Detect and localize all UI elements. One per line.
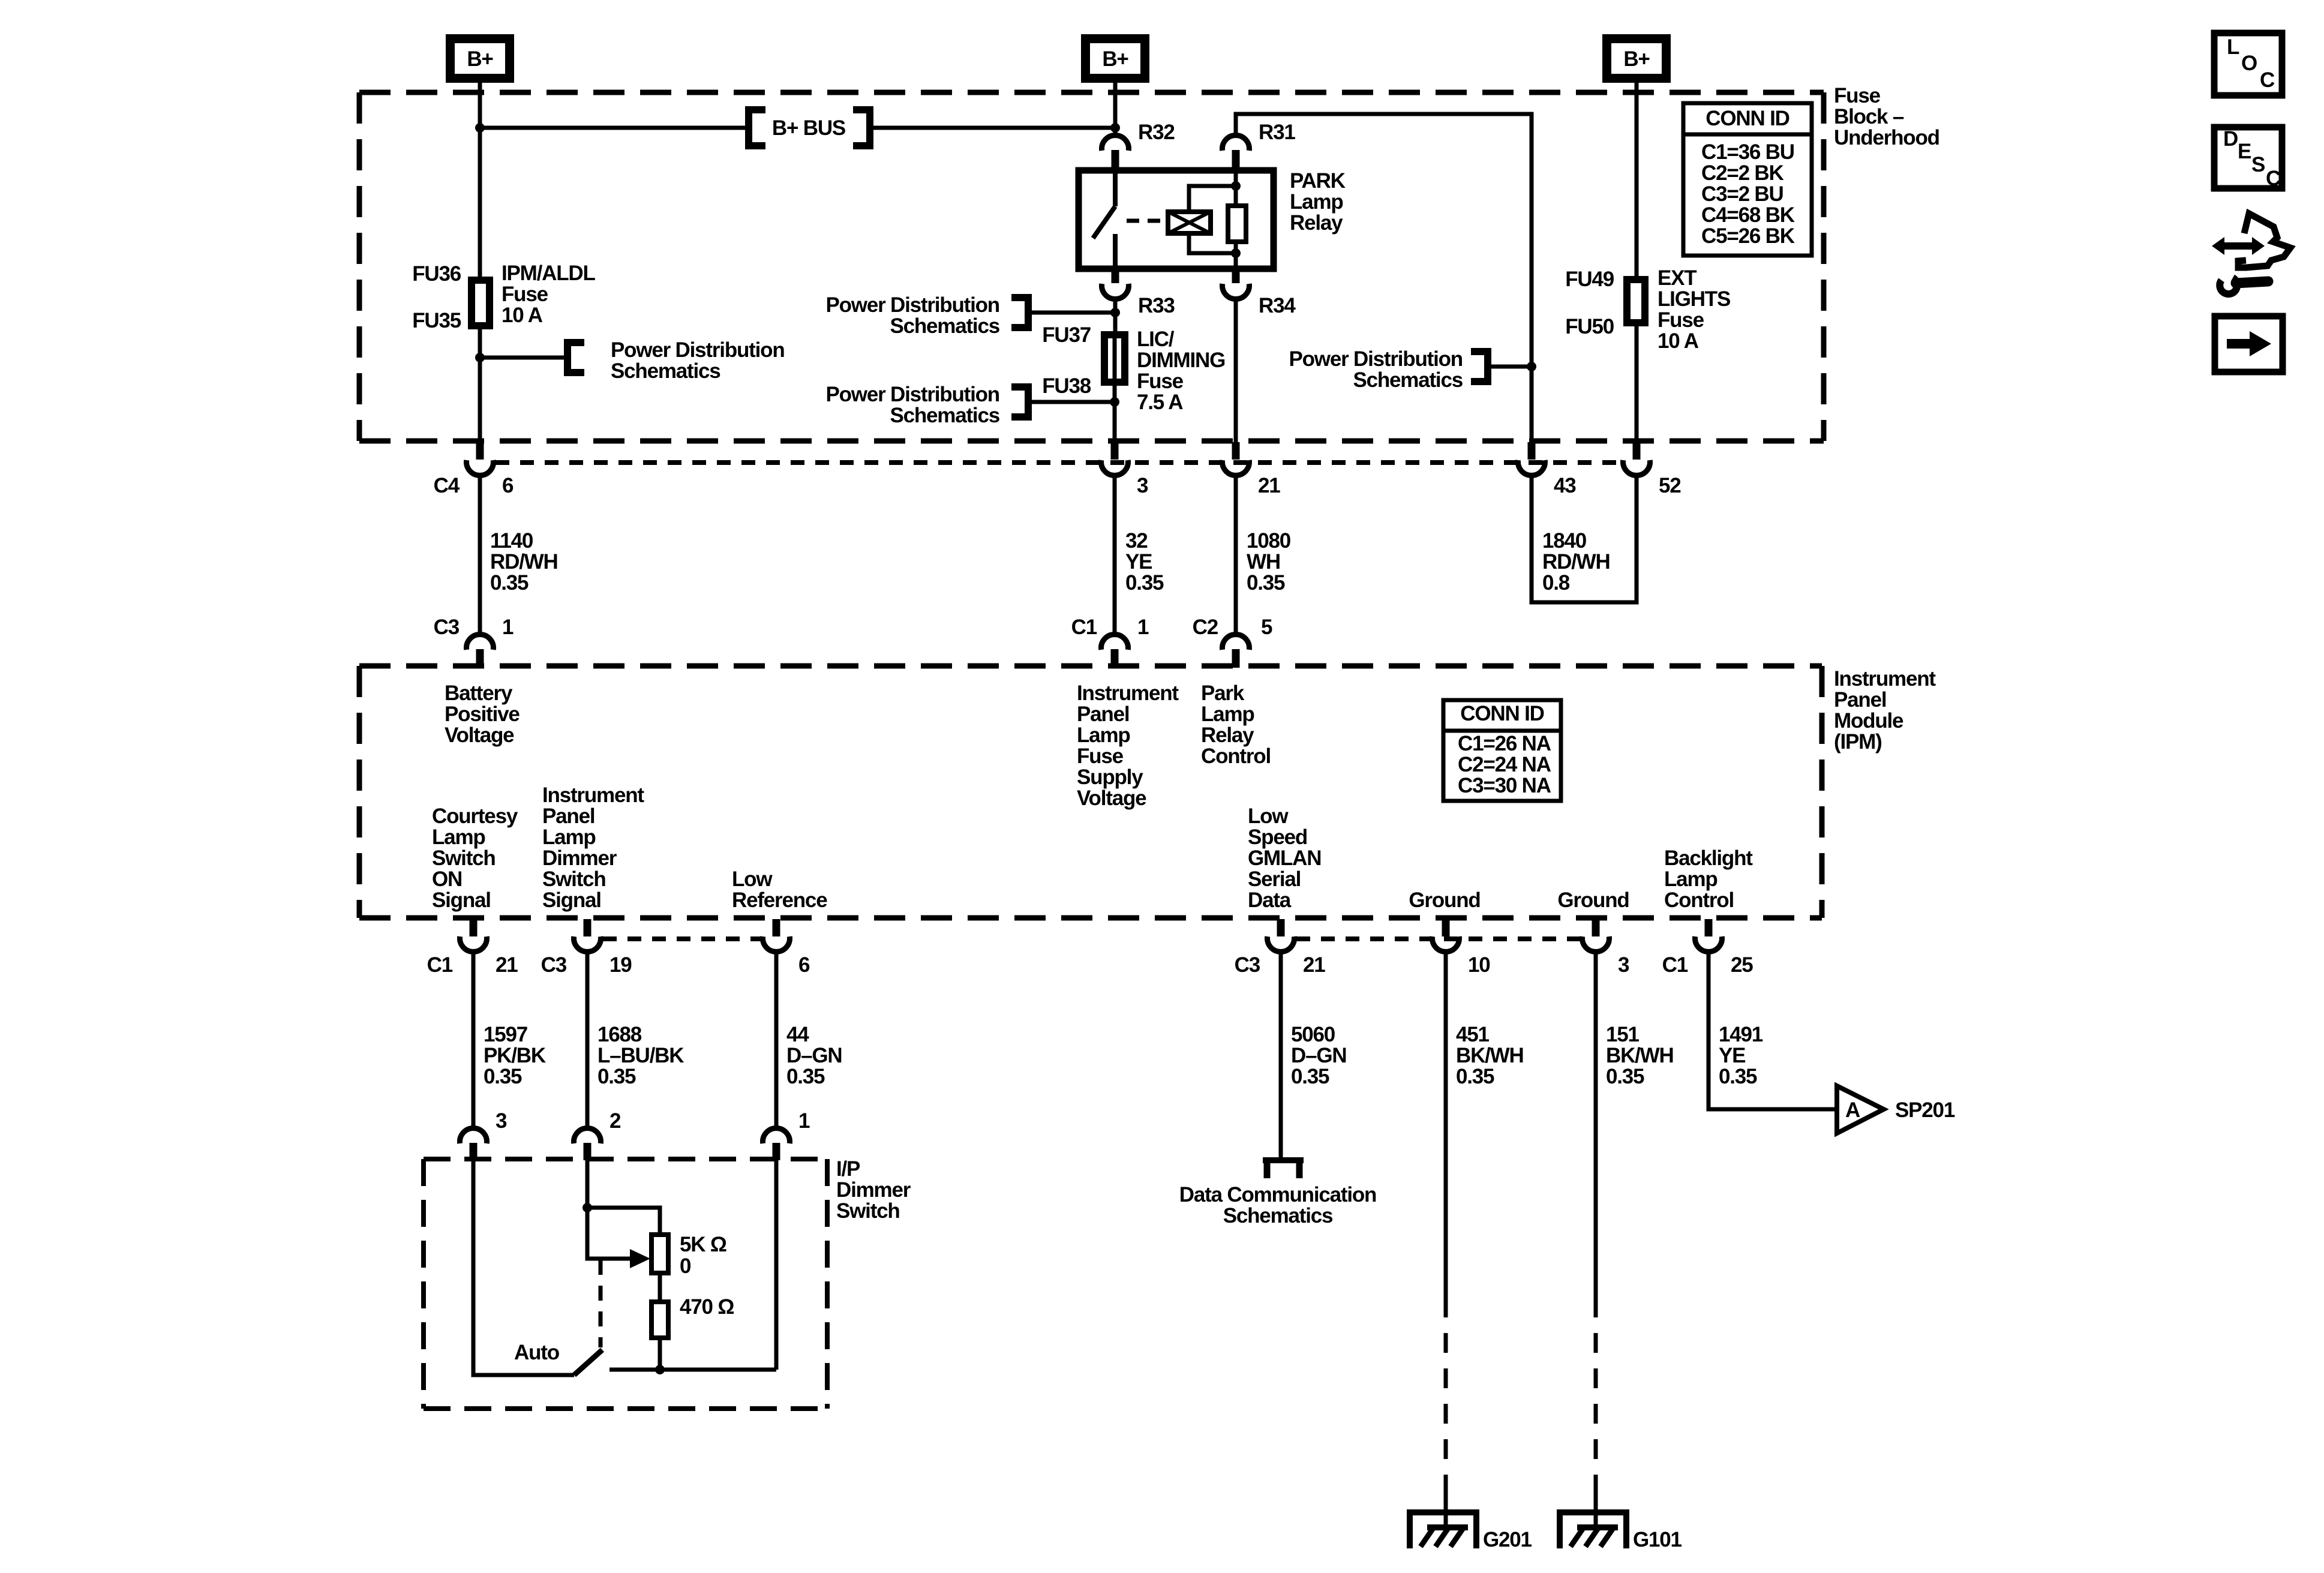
svg-text:LIGHTS: LIGHTS (1658, 287, 1730, 311)
junction resistor bottom (655, 1365, 665, 1374)
wire R34 to connector 21 (1234, 300, 1238, 444)
svg-text:R31: R31 (1259, 121, 1295, 144)
svg-text:SP201: SP201 (1895, 1098, 1955, 1122)
svg-text:Dimmer: Dimmer (836, 1178, 911, 1202)
IPM label (1834, 667, 1936, 754)
svg-text:FU37: FU37 (1042, 323, 1091, 347)
svg-text:EXT: EXT (1658, 266, 1697, 290)
svg-text:E: E (2238, 140, 2251, 163)
B+ battery feed symbol 1 (446, 34, 514, 83)
svg-text:WH: WH (1247, 550, 1280, 574)
svg-text:C2=24 NA: C2=24 NA (1458, 753, 1551, 776)
svg-text:L: L (2227, 35, 2239, 59)
svg-text:A: A (1845, 1098, 1860, 1122)
svg-text:C1: C1 (1071, 616, 1097, 639)
wire 1597 PK/BK (472, 953, 476, 1128)
svg-text:10 A: 10 A (502, 304, 543, 327)
wire label 1491 YE 0.35 (1719, 1023, 1763, 1088)
svg-text:3: 3 (496, 1109, 507, 1133)
relay switch fixed contact lower (1113, 234, 1118, 269)
svg-text:C1=26 NA: C1=26 NA (1458, 732, 1551, 755)
svg-text:O: O (2241, 52, 2257, 75)
fuse FU49/FU50 EXT LIGHTS (1627, 280, 1645, 323)
connector C2 pin 5 IPM (1222, 635, 1249, 668)
svg-text:FU50: FU50 (1565, 315, 1614, 338)
svg-text:Instrument: Instrument (1077, 682, 1179, 705)
svg-text:Signal: Signal (542, 888, 601, 912)
relay actuator dashed linkage (1127, 219, 1166, 223)
wire wiper arm (587, 1208, 632, 1259)
off-page label power distribution schematics 2 (825, 293, 999, 338)
svg-text:B+ BUS: B+ BUS (772, 116, 845, 140)
connector fuse block bottom x=2728 pin 52 (1623, 442, 1650, 475)
connector fuse block bottom x=2060 pin 21 (1222, 442, 1249, 475)
wire label 44 D–GN 0.35 (786, 1023, 842, 1088)
power distribution schematics bracket 4 (1471, 348, 1488, 385)
svg-text:FU36: FU36 (412, 262, 461, 286)
svg-text:L–BU/BK: L–BU/BK (597, 1044, 684, 1067)
svg-text:Panel: Panel (1834, 688, 1886, 712)
svg-text:Lamp: Lamp (432, 825, 485, 849)
svg-text:C3: C3 (1235, 953, 1260, 977)
wire FU50 to connector 52 (1635, 326, 1639, 444)
svg-text:R34: R34 (1259, 294, 1296, 317)
svg-text:(IPM): (IPM) (1834, 730, 1882, 754)
svg-text:B+: B+ (467, 47, 493, 71)
relay switch fixed contact upper (1113, 170, 1118, 206)
svg-text:Reference: Reference (732, 888, 827, 912)
svg-text:YE: YE (1719, 1044, 1745, 1067)
svg-text:PK/BK: PK/BK (484, 1044, 546, 1067)
svg-text:10 A: 10 A (1658, 329, 1699, 353)
connector dimmer switch pin 1 (763, 1128, 790, 1160)
wire 32 YE (1113, 476, 1117, 634)
svg-text:C3: C3 (434, 616, 460, 639)
svg-text:RD/WH: RD/WH (1542, 550, 1610, 574)
svg-text:Switch: Switch (432, 846, 496, 870)
svg-text:C: C (2260, 68, 2275, 92)
svg-text:FU35: FU35 (412, 309, 461, 332)
fuse FU37/FU38 LIC/DIMMING (1104, 335, 1125, 382)
off-page label data communication schematics (1179, 1183, 1376, 1227)
svg-text:C1: C1 (427, 953, 453, 977)
svg-text:0.35: 0.35 (1125, 571, 1164, 595)
svg-text:0.8: 0.8 (1542, 571, 1570, 595)
switch blade auto (574, 1350, 602, 1375)
wire label 151 BK/WH 0.35 (1606, 1023, 1674, 1088)
wire B+2 vertical feed to R32 (1113, 83, 1118, 136)
wire resistor to bottom node (658, 1338, 662, 1370)
svg-text:Control: Control (1664, 888, 1734, 912)
wire relay coil bottom to R31 line (1189, 233, 1236, 253)
connector row dotted line IPM bottom right group (1296, 936, 1580, 941)
svg-text:C3=30 NA: C3=30 NA (1458, 774, 1551, 797)
svg-text:44: 44 (786, 1023, 809, 1046)
IPM output label instrument panel lamp dimmer switch signal (542, 784, 644, 912)
svg-text:Power Distribution: Power Distribution (825, 383, 999, 406)
svg-text:Schematics: Schematics (1353, 368, 1463, 392)
svg-text:Underhood: Underhood (1834, 126, 1939, 149)
svg-text:Schematics: Schematics (1223, 1204, 1333, 1227)
svg-text:Power Distribution: Power Distribution (825, 293, 999, 317)
svg-text:Schematics: Schematics (611, 359, 720, 383)
svg-text:Fuse: Fuse (1834, 84, 1881, 107)
svg-text:Speed: Speed (1248, 825, 1307, 849)
connector IPM bottom x=979 pin 19 (574, 919, 601, 951)
svg-text:C1: C1 (1662, 953, 1688, 977)
svg-text:Lamp: Lamp (1077, 724, 1130, 747)
svg-text:Instrument: Instrument (1834, 667, 1936, 691)
wire relay coil top to R31 line (1189, 186, 1236, 212)
junction coil bottom (1231, 248, 1241, 258)
wire label 1688 L–BU/BK 0.35 (597, 1023, 684, 1088)
svg-text:CONN ID: CONN ID (1706, 107, 1789, 130)
svg-text:0.35: 0.35 (597, 1065, 636, 1088)
wire tap to power distribution bracket 3 (1028, 400, 1115, 404)
svg-text:Courtesy: Courtesy (432, 804, 518, 828)
svg-text:Backlight: Backlight (1664, 846, 1753, 870)
B+ BUS left bracket (749, 106, 765, 149)
svg-text:C4=68 BK: C4=68 BK (1701, 203, 1795, 227)
wire potentiometer to resistor 470 (658, 1273, 662, 1302)
wire label 5060 D-GN 0.35 (1291, 1023, 1346, 1088)
svg-text:0.35: 0.35 (1719, 1065, 1757, 1088)
svg-text:C3: C3 (541, 953, 567, 977)
svg-text:Park: Park (1201, 682, 1245, 705)
svg-text:BK/WH: BK/WH (1606, 1044, 1674, 1067)
relay switch blade (1093, 206, 1115, 238)
wire 1491 YE to splice SP201 (1709, 953, 1834, 1109)
wire label 32 YE 0.35 (1125, 529, 1164, 595)
svg-text:B+: B+ (1623, 47, 1650, 71)
wire label 1840 RD/WH 0.8 (1542, 529, 1610, 595)
svg-text:21: 21 (1258, 474, 1280, 497)
wire FU35 to connector C4 (478, 329, 482, 444)
wire label 1597 PK/BK 0.35 (484, 1023, 546, 1088)
svg-text:Module: Module (1834, 709, 1903, 733)
svg-text:1: 1 (502, 616, 514, 639)
svg-text:1: 1 (798, 1109, 810, 1133)
fuse FU36/FU35 IPM/ALDL (472, 280, 490, 326)
svg-text:C2: C2 (1193, 616, 1218, 639)
svg-text:C4: C4 (434, 474, 460, 497)
wire label 1080 WH 0.35 (1247, 529, 1291, 595)
svg-text:Auto: Auto (514, 1341, 560, 1364)
potentiometer 5K (651, 1235, 668, 1273)
svg-text:Battery: Battery (445, 682, 513, 705)
power distribution schematics bracket 2 (1011, 294, 1028, 331)
connector IPM bottom x=2410 pin 10 (1433, 919, 1460, 951)
wire junction to potentiometer top (587, 1208, 660, 1235)
wire tap to power distribution bracket 4 (1491, 365, 1532, 369)
svg-text:Schematics: Schematics (890, 314, 999, 338)
connector C1 pin 1 IPM (1101, 635, 1128, 668)
wire 1840 RD/WH loop 43 to 52 (1532, 476, 1637, 602)
power distribution schematics bracket 3 (1011, 383, 1028, 421)
junction B+ bus tap (475, 123, 485, 133)
icon LOC box (2214, 33, 2282, 95)
svg-text:0.35: 0.35 (490, 571, 529, 595)
svg-text:32: 32 (1125, 529, 1148, 553)
connector row dotted line fuse block (496, 460, 1621, 465)
B+ battery feed symbol 3 (1602, 34, 1671, 83)
svg-text:0.35: 0.35 (484, 1065, 522, 1088)
svg-text:YE: YE (1125, 550, 1152, 574)
connector C3 pin 1 IPM (467, 635, 494, 668)
svg-text:C3=2 BU: C3=2 BU (1701, 182, 1783, 206)
svg-text:3: 3 (1137, 474, 1148, 497)
svg-text:D: D (2223, 127, 2238, 151)
relay coil box with X (1168, 212, 1211, 233)
svg-text:Power Distribution: Power Distribution (1289, 347, 1463, 371)
svg-text:ON: ON (432, 867, 462, 891)
wire into ground G101 (1594, 1494, 1598, 1527)
svg-text:21: 21 (496, 953, 518, 977)
connector IPM bottom x=789 pin 21 (460, 919, 487, 951)
junction power distribution tap 2 (1110, 308, 1120, 317)
off-page terminal data communication (1263, 1160, 1304, 1178)
CONN ID table IPM (1443, 700, 1561, 801)
junction power distribution tap 3 (1110, 397, 1119, 407)
svg-text:G101: G101 (1633, 1528, 1682, 1551)
svg-text:S: S (2251, 153, 2265, 176)
svg-text:1688: 1688 (597, 1023, 642, 1046)
svg-text:Supply: Supply (1077, 766, 1143, 789)
svg-text:6: 6 (502, 474, 514, 497)
wire 1688 L–BU/BK (585, 953, 590, 1128)
svg-text:6: 6 (798, 953, 810, 977)
svg-text:0.35: 0.35 (1456, 1065, 1494, 1088)
connector IPM bottom x=2135 pin 21 (1268, 919, 1295, 951)
svg-text:C5=26 BK: C5=26 BK (1701, 224, 1795, 248)
connector R33 (1102, 269, 1129, 299)
svg-text:2: 2 (609, 1109, 621, 1133)
wire B+3 vertical feed (1635, 83, 1639, 277)
connector R31 (1222, 136, 1249, 170)
B+ battery feed symbol 2 (1081, 34, 1149, 83)
svg-text:Panel: Panel (1077, 703, 1129, 726)
svg-text:C: C (2266, 167, 2281, 190)
svg-text:0: 0 (680, 1254, 691, 1278)
connector IPM bottom x=2848 pin 25 (1695, 919, 1722, 951)
icon schematic reference wrench and arrow (2212, 214, 2290, 294)
IPM output label park lamp relay control (1201, 682, 1271, 768)
svg-text:470 Ω: 470 Ω (680, 1295, 734, 1319)
svg-text:Lamp: Lamp (1290, 190, 1343, 214)
resistor 470 (651, 1302, 668, 1338)
svg-text:Low: Low (1248, 804, 1289, 828)
svg-text:1491: 1491 (1719, 1023, 1763, 1046)
svg-text:PARK: PARK (1290, 169, 1346, 193)
wire into ground G201 (1444, 1494, 1448, 1527)
svg-text:Ground: Ground (1409, 888, 1480, 912)
wiper arrowhead (630, 1249, 650, 1268)
B+ BUS right bracket (853, 106, 870, 149)
splice symbol A (1837, 1086, 1884, 1133)
svg-text:Voltage: Voltage (1077, 786, 1146, 810)
svg-text:1140: 1140 (490, 529, 533, 553)
wire B+ BUS horizontal right segment (870, 126, 1115, 130)
svg-text:Power Distribution: Power Distribution (611, 338, 785, 362)
off-page label power distribution schematics 1 (611, 338, 785, 383)
svg-text:C2=2 BK: C2=2 BK (1701, 161, 1783, 185)
wire 1080 WH (1234, 476, 1238, 634)
svg-text:Switch: Switch (836, 1199, 900, 1223)
wire FU38 to connector 3 (1113, 386, 1117, 444)
off-page label power distribution schematics 4 (1289, 347, 1463, 392)
IPM label low reference (732, 867, 827, 912)
wire 151 BK/WH to G101 (1594, 953, 1598, 1298)
svg-text:D–GN: D–GN (1291, 1044, 1346, 1067)
svg-text:Fuse: Fuse (502, 283, 548, 306)
svg-text:Data: Data (1248, 888, 1292, 912)
svg-text:1840: 1840 (1542, 529, 1587, 553)
svg-text:1597: 1597 (484, 1023, 527, 1046)
wire dashed segment to G101 (1594, 1298, 1598, 1494)
fuse value label IPM/ALDL Fuse 10 A (502, 262, 595, 327)
wire B+1 vertical feed (478, 83, 482, 278)
svg-text:D–GN: D–GN (786, 1044, 842, 1067)
svg-text:FU38: FU38 (1042, 374, 1091, 398)
connector dimmer switch pin 3 (460, 1128, 487, 1160)
ground symbol G201 (1410, 1509, 1476, 1548)
wire relay contact R31-R34 through resistor (1234, 170, 1238, 269)
svg-text:Lamp: Lamp (542, 825, 596, 849)
relay PARK Lamp Relay box (1079, 170, 1274, 269)
svg-text:DIMMING: DIMMING (1137, 349, 1225, 372)
switch to wiper dashed linkage (599, 1260, 603, 1347)
svg-text:0.35: 0.35 (1247, 571, 1285, 595)
wire 5060 D-GN GMLAN (1279, 953, 1283, 1160)
svg-text:R32: R32 (1138, 121, 1175, 144)
svg-text:151: 151 (1606, 1023, 1640, 1046)
icon DESC box (2214, 127, 2282, 190)
connector fuse block bottom x=800 pin 6 (467, 442, 494, 475)
wire through fuse FU37 (1113, 332, 1117, 385)
svg-text:25: 25 (1731, 953, 1753, 977)
svg-text:0.35: 0.35 (1291, 1065, 1329, 1088)
wire tap to power distribution bracket 2 (1028, 311, 1115, 315)
junction power distribution tap 1 (475, 353, 485, 362)
svg-text:Relay: Relay (1290, 211, 1343, 235)
wire 44 D–GN (774, 953, 779, 1128)
off-page label power distribution schematics 3 (825, 383, 999, 427)
svg-text:0.35: 0.35 (786, 1065, 825, 1088)
svg-text:5: 5 (1261, 616, 1272, 639)
svg-text:7.5 A: 7.5 A (1137, 391, 1183, 414)
svg-text:Low: Low (732, 867, 773, 891)
junction B+ bus to R32 wire (1110, 123, 1120, 133)
svg-text:1080: 1080 (1247, 529, 1291, 553)
wire pin 3 leg to switch (473, 1160, 574, 1375)
svg-text:BK/WH: BK/WH (1456, 1044, 1524, 1067)
svg-text:21: 21 (1303, 953, 1325, 977)
svg-text:Fuse: Fuse (1658, 308, 1704, 332)
instrument panel module dashed enclosure (359, 666, 1822, 918)
svg-text:Fuse: Fuse (1077, 745, 1124, 768)
wire B+ BUS horizontal left segment (480, 126, 745, 130)
wire label 451 BK/WH 0.35 (1456, 1023, 1524, 1088)
svg-text:0.35: 0.35 (1606, 1065, 1644, 1088)
svg-text:Block –: Block – (1834, 105, 1904, 128)
power distribution schematics bracket 1 (568, 339, 584, 376)
svg-text:Serial: Serial (1248, 867, 1301, 891)
svg-text:RD/WH: RD/WH (490, 550, 558, 574)
svg-text:Instrument: Instrument (542, 784, 644, 807)
junction power distribution tap 4 (1527, 362, 1536, 371)
svg-text:FU49: FU49 (1565, 268, 1614, 291)
CONN ID table fuse block (1683, 103, 1812, 256)
connector IPM bottom x=2660 pin 3 (1583, 919, 1610, 951)
IPM output label courtesy lamp switch ON signal (432, 804, 518, 912)
IPM output label backlight lamp control (1664, 846, 1753, 912)
svg-text:Switch: Switch (542, 867, 606, 891)
connector R32 (1102, 136, 1129, 170)
wire pin 2 leg (585, 1160, 590, 1208)
svg-text:Ground: Ground (1557, 888, 1629, 912)
wire tap to power distribution bracket 1 (480, 356, 568, 360)
svg-text:IPM/ALDL: IPM/ALDL (502, 262, 595, 285)
junction pin 2 split (582, 1203, 592, 1212)
svg-text:451: 451 (1456, 1023, 1490, 1046)
wire 1140 RD/WH (478, 476, 482, 634)
IPM input label battery positive voltage (445, 682, 520, 747)
IPM label low speed GMLAN serial data (1248, 804, 1321, 912)
junction coil top (1231, 181, 1241, 191)
svg-text:LIC/: LIC/ (1137, 328, 1175, 351)
connector dimmer switch pin 2 (574, 1128, 601, 1160)
svg-text:Relay: Relay (1201, 724, 1254, 747)
svg-text:Control: Control (1201, 745, 1271, 768)
icon forward arrow box (2215, 316, 2283, 372)
svg-text:B+: B+ (1102, 47, 1128, 71)
wire 451 BK/WH to G201 (1444, 953, 1448, 1298)
svg-text:R33: R33 (1138, 294, 1175, 317)
wire bottom node to pin 1 leg (609, 1368, 776, 1372)
fuse value label LIC/DIMMING Fuse 7.5 A (1137, 328, 1225, 414)
ground symbol G101 (1560, 1509, 1626, 1548)
I/P dimmer switch dashed enclosure (424, 1159, 827, 1409)
svg-text:Lamp: Lamp (1201, 703, 1254, 726)
relay label PARK Lamp Relay (1290, 169, 1346, 235)
wire pin 1 leg (774, 1160, 779, 1370)
wire R33 to FU37 (1113, 300, 1118, 332)
svg-text:I/P: I/P (836, 1157, 860, 1181)
connector IPM bottom x=1294 pin 6 (763, 919, 790, 951)
svg-text:19: 19 (609, 953, 632, 977)
svg-text:5K Ω: 5K Ω (680, 1233, 726, 1256)
svg-text:Panel: Panel (542, 804, 594, 828)
dimmer switch label (836, 1157, 911, 1223)
fuse block label (1834, 84, 1939, 149)
wire label 1140 RD/WH 0.35 (490, 529, 558, 595)
svg-text:CONN ID: CONN ID (1460, 702, 1544, 725)
connector fuse block bottom x=1858 pin 3 (1101, 442, 1128, 475)
fuse block underhood dashed enclosure (359, 92, 1824, 441)
relay resistor (1228, 206, 1246, 242)
svg-text:C1=36 BU: C1=36 BU (1701, 140, 1794, 164)
connector fuse block bottom x=2553 pin 43 (1518, 442, 1545, 475)
svg-text:43: 43 (1554, 474, 1576, 497)
svg-text:1: 1 (1137, 616, 1149, 639)
svg-text:G201: G201 (1483, 1528, 1532, 1551)
fuse value label EXT LIGHTS Fuse 10 A (1658, 266, 1730, 353)
connector row dotted line IPM bottom left group (603, 936, 761, 941)
svg-text:Signal: Signal (432, 888, 491, 912)
svg-text:Positive: Positive (445, 703, 520, 726)
connector R34 (1222, 269, 1249, 299)
svg-text:Schematics: Schematics (890, 404, 999, 427)
